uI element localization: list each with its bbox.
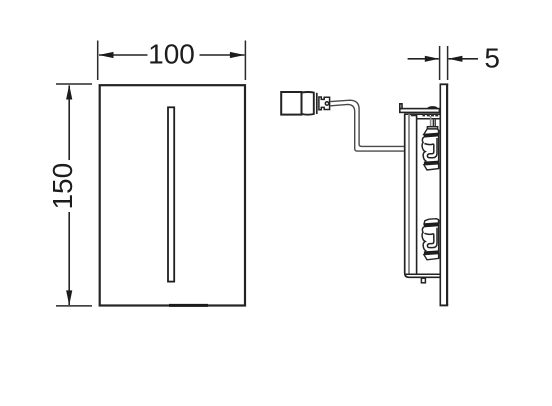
side view: bottom tab <box>421 278 425 283</box>
dim 100: left arrow <box>99 52 114 58</box>
side view: wall plate top cap <box>440 83 449 85</box>
side view: housing inner gray wall <box>408 114 410 274</box>
side view: lower clip top wedge <box>424 219 439 224</box>
dim 5: left extension line <box>439 46 441 80</box>
front plate bottom thick segment <box>169 304 208 307</box>
dim 5: right arrow pointing left <box>448 56 462 62</box>
dim 5: right extension line <box>447 46 449 80</box>
dim 100: right extension line <box>244 41 246 81</box>
side view: wall plate front face right line <box>446 84 448 306</box>
front plate outline <box>100 85 245 305</box>
side view: rail hook tab <box>400 104 402 109</box>
dim 150: top arrow <box>66 85 72 100</box>
dim 100: dimension line left segment <box>99 54 148 56</box>
side view: upper clip core <box>422 130 438 170</box>
dim 100: right arrow <box>230 52 245 58</box>
dim 150: bottom extension tick <box>56 305 92 307</box>
side view: wall plate bottom cap <box>440 304 449 306</box>
side view: screw flange <box>427 127 437 129</box>
dim 5: left arrow pointing right <box>425 56 439 62</box>
side view: housing left outer wall <box>405 114 440 277</box>
cable: plug pin circle <box>325 102 328 105</box>
cable: connector barrel end cap <box>316 93 318 114</box>
svg-text:5: 5 <box>484 43 500 74</box>
clip bottom dark band <box>424 161 439 165</box>
dim 100: dimension line right segment <box>200 54 245 56</box>
side view: screw gray guide line <box>430 116 432 127</box>
side view: housing bottom inner edge <box>406 273 441 275</box>
clip left wavy edge <box>422 137 426 161</box>
clip right edge <box>438 130 440 169</box>
cable: plug interface <box>319 97 330 110</box>
front plate slot <box>168 107 174 281</box>
cable: wire lower boundary <box>331 104 405 151</box>
dim 5: right dimension segment <box>448 58 478 60</box>
side view: housing inner top edge <box>417 118 440 120</box>
side view: housing inner black wall <box>416 115 418 274</box>
svg-text:150: 150 <box>47 163 78 210</box>
dim 5: left dimension segment <box>408 58 439 60</box>
side view: hatch marks under top edge <box>411 114 438 116</box>
side view: lower clip core <box>422 220 438 260</box>
side view: housing top edge <box>404 113 440 115</box>
side view: wall plate front face left line <box>439 84 441 306</box>
dim 150: dimension line lower segment <box>68 212 70 305</box>
svg-text:100: 100 <box>148 39 195 70</box>
side view: screw stem <box>432 120 434 127</box>
dim 150: dimension line upper segment <box>68 86 70 161</box>
cable: connector body large <box>281 92 301 115</box>
cable: connector body barrel <box>302 92 314 115</box>
cable: wire upper boundary <box>331 100 405 146</box>
clip bottom wedge <box>424 164 439 170</box>
side view: top mounting rail <box>400 109 440 113</box>
side view: upper clip top wedge <box>424 129 439 135</box>
dim 150: top extension tick <box>56 83 92 85</box>
dim 150: bottom arrow <box>66 290 72 305</box>
dim 100: left extension line <box>97 41 99 81</box>
clip pocket and stem hook <box>424 138 437 158</box>
side view: screw head dome on rail <box>427 106 438 108</box>
clip top dark band <box>424 133 439 138</box>
